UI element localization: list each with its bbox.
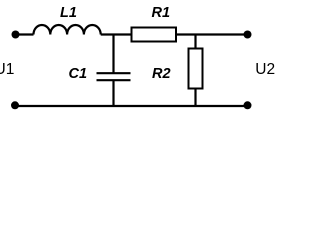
terminal dot bottom-left (U1 -) [11, 101, 19, 109]
resistor R1 [132, 28, 177, 42]
svg-text:U1: U1 [0, 61, 14, 78]
inductor L1 [34, 25, 101, 35]
svg-text:R2: R2 [152, 66, 171, 82]
capacitor C1 bottom plate [97, 79, 131, 81]
wire R2 to bottom rail [194, 89, 196, 107]
svg-text:L1: L1 [60, 5, 77, 21]
wire capacitor to bottom rail [112, 80, 114, 106]
bottom rail wire [15, 105, 248, 107]
svg-text:C1: C1 [69, 66, 88, 82]
node: junction R2 branch [194, 35, 196, 49]
node: junction capacitor branch [112, 35, 114, 73]
terminal dot top-left (U1 +) [12, 31, 20, 39]
resistor R2 [189, 49, 203, 89]
capacitor C1 top plate [97, 72, 131, 74]
wire top-left dot to inductor [16, 33, 34, 35]
svg-text:R1: R1 [152, 5, 171, 21]
svg-text:U2: U2 [255, 61, 275, 78]
terminal dot bottom-right (U2 -) [244, 101, 252, 109]
wire inductor to R1 [101, 33, 131, 35]
wire R1 to top-right dot [176, 33, 248, 35]
terminal dot top-right (U2 +) [244, 31, 252, 39]
